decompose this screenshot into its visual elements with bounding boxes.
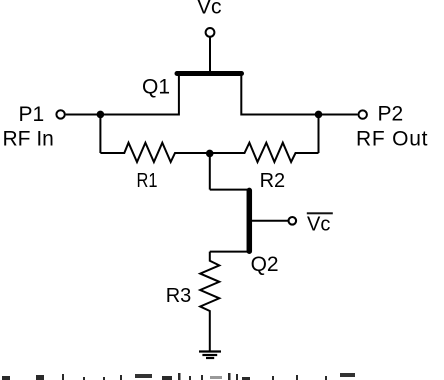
svg-text:R3: R3 xyxy=(166,285,192,307)
svg-text:R1: R1 xyxy=(137,170,158,192)
svg-text:Q1: Q1 xyxy=(142,75,170,98)
svg-text:P2: P2 xyxy=(378,103,404,126)
svg-text:Vc: Vc xyxy=(307,214,330,236)
svg-text:Vc: Vc xyxy=(197,0,222,19)
svg-text:Q2: Q2 xyxy=(251,253,279,276)
svg-text:P1: P1 xyxy=(19,103,45,126)
svg-text:R2: R2 xyxy=(260,170,286,192)
svg-text:RF In: RF In xyxy=(3,127,54,150)
svg-text:RF Out: RF Out xyxy=(356,128,428,151)
